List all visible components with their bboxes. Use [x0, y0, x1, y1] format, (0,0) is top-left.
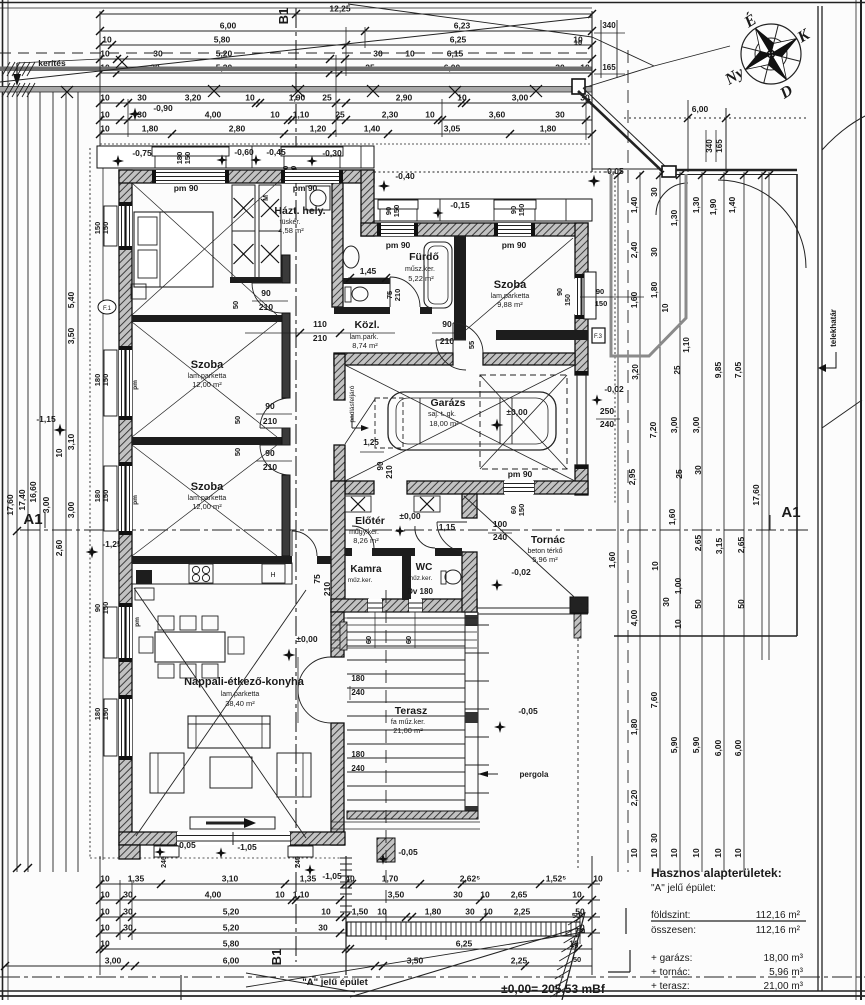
- window left szoba2: [119, 350, 132, 416]
- svg-text:75: 75: [312, 574, 322, 584]
- svg-text:10: 10: [480, 890, 490, 900]
- svg-text:340: 340: [602, 21, 616, 30]
- dim 340/165 left col: [600, 20, 602, 78]
- bathtub: [424, 242, 452, 308]
- svg-text:30: 30: [123, 890, 133, 900]
- svg-text:10: 10: [650, 561, 660, 571]
- svg-text:Szoba: Szoba: [494, 279, 527, 291]
- compass rose: [741, 24, 801, 84]
- svg-text:1,10: 1,10: [293, 890, 310, 900]
- street fence band: [347, 922, 580, 936]
- svg-text:240: 240: [295, 856, 302, 868]
- svg-text:100: 100: [493, 519, 507, 529]
- window topB 1: [381, 223, 414, 236]
- svg-text:12,25: 12,25: [329, 4, 351, 14]
- svg-text:Közl.: Közl.: [354, 319, 379, 331]
- svg-text:55: 55: [467, 341, 476, 349]
- window wc south: [409, 599, 422, 612]
- svg-text:1,45: 1,45: [360, 266, 377, 276]
- bottom stack verticals: [99, 856, 101, 975]
- svg-text:2,62⁵: 2,62⁵: [460, 874, 481, 884]
- svg-text:1,35: 1,35: [128, 874, 145, 884]
- svg-text:30: 30: [318, 923, 328, 933]
- svg-text:+ garázs:: + garázs:: [651, 953, 692, 964]
- svg-text:A1: A1: [23, 511, 42, 528]
- drawing frame top edge: [0, 2, 865, 4]
- svg-text:1,15: 1,15: [439, 522, 456, 532]
- window kamra south: [368, 599, 382, 612]
- svg-text:10: 10: [483, 907, 493, 917]
- svg-text:30: 30: [123, 907, 133, 917]
- svg-text:3,20: 3,20: [631, 364, 640, 380]
- wall kamra-wc divider: [402, 548, 411, 600]
- svg-text:B1: B1: [276, 8, 291, 25]
- eloter cupboard left: [345, 496, 371, 512]
- svg-text:10: 10: [661, 303, 670, 312]
- svg-text:-0,02: -0,02: [604, 384, 624, 394]
- svg-text:10: 10: [100, 124, 110, 134]
- fence diagonal double: [578, 91, 663, 172]
- svg-text:3,10: 3,10: [66, 433, 76, 450]
- wall top-B exterior: [361, 223, 588, 236]
- svg-text:5,80: 5,80: [223, 939, 240, 949]
- levels row left section: [112, 155, 124, 167]
- levels row right section: [378, 180, 390, 192]
- utility band light: [0, 87, 592, 93]
- svg-text:150: 150: [101, 374, 110, 387]
- svg-text:Dv 180: Dv 180: [407, 587, 433, 596]
- svg-text:5,90: 5,90: [691, 736, 701, 753]
- window topA 2: [285, 170, 339, 183]
- svg-text:3,15: 3,15: [714, 537, 724, 554]
- svg-text:3,05: 3,05: [444, 124, 461, 134]
- svg-text:4,00: 4,00: [629, 609, 639, 626]
- terrace door bottom wall: [177, 832, 290, 845]
- street diagonals: [350, 928, 578, 997]
- svg-text:10: 10: [100, 890, 110, 900]
- level -0,05 gate: [588, 175, 601, 188]
- sill band left section: [97, 146, 374, 168]
- svg-text:17,60: 17,60: [5, 494, 15, 516]
- svg-text:2,60: 2,60: [54, 539, 64, 556]
- left comb line 17,60: [16, 92, 18, 872]
- small gate swing arc: [656, 183, 688, 215]
- svg-text:210: 210: [259, 302, 273, 312]
- svg-text:50: 50: [572, 911, 580, 920]
- svg-text:3,10: 3,10: [222, 874, 239, 884]
- svg-text:150: 150: [595, 299, 608, 308]
- svg-text:5,80: 5,80: [214, 35, 231, 45]
- wall right upper: [575, 223, 588, 278]
- svg-text:10: 10: [102, 35, 112, 45]
- svg-text:2,65: 2,65: [511, 890, 528, 900]
- svg-text:90: 90: [261, 288, 271, 298]
- wall bottom exterior: [119, 832, 177, 845]
- svg-text:Terasz: Terasz: [395, 705, 428, 717]
- bottom dim row 1: [100, 883, 600, 885]
- svg-text:6,00: 6,00: [692, 104, 709, 114]
- left comb line 16,60: [39, 92, 41, 872]
- svg-text:8,74 m²: 8,74 m²: [352, 341, 378, 350]
- svg-text:5,20: 5,20: [223, 907, 240, 917]
- window left nappali 2: [119, 699, 132, 756]
- f3 marker: [592, 328, 605, 343]
- svg-text:1,70: 1,70: [382, 874, 399, 884]
- svg-text:150: 150: [517, 204, 526, 217]
- armchair right: [277, 753, 311, 797]
- window right wall: [575, 278, 588, 315]
- svg-text:30: 30: [649, 833, 659, 843]
- svg-text:"A" jelű épület: "A" jelű épület: [302, 977, 368, 988]
- porch south edge: [477, 607, 588, 609]
- svg-text:150: 150: [101, 490, 110, 503]
- svg-text:30: 30: [137, 93, 147, 103]
- svg-text:Előtér: Előtér: [355, 515, 385, 527]
- dim line 3,20 row: [100, 102, 592, 104]
- bottom dim row 3: [100, 916, 600, 918]
- washer hazt: [306, 186, 330, 210]
- f1 marker: [98, 300, 116, 314]
- svg-text:8,26 m²: 8,26 m²: [353, 536, 379, 545]
- svg-text:H: H: [270, 572, 275, 579]
- svg-text:pm: pm: [134, 617, 141, 627]
- wall hazt east: [332, 183, 343, 307]
- svg-text:240: 240: [351, 764, 365, 773]
- svg-text:30: 30: [649, 247, 659, 257]
- fence arrow top left: [16, 63, 18, 80]
- window left nappali 1: [119, 607, 132, 658]
- svg-text:2,25: 2,25: [511, 956, 528, 966]
- wc bath: [345, 287, 351, 302]
- svg-text:F.1: F.1: [103, 306, 112, 312]
- fence diagonal A across top stack: [0, 17, 592, 82]
- svg-text:1,30: 1,30: [691, 196, 701, 213]
- svg-text:6,00: 6,00: [713, 739, 723, 756]
- door garage: [453, 323, 483, 353]
- svg-text:10: 10: [457, 93, 467, 103]
- svg-text:240: 240: [493, 532, 507, 542]
- svg-text:1,25: 1,25: [363, 438, 379, 447]
- svg-text:10: 10: [55, 448, 64, 457]
- level tornac: [491, 579, 503, 591]
- wall bath south: [334, 307, 390, 314]
- diag szoba2: [132, 322, 277, 437]
- svg-text:2,30: 2,30: [382, 110, 399, 120]
- band end hatch: [2, 62, 10, 76]
- terrace left step: [377, 838, 395, 862]
- svg-text:16,60: 16,60: [28, 481, 38, 503]
- svg-text:+ terasz:: + terasz:: [651, 981, 690, 992]
- wall nappali north: [132, 556, 292, 564]
- svg-text:30: 30: [661, 597, 671, 607]
- svg-text:műz.ker.: műz.ker.: [408, 575, 433, 582]
- svg-text:3,00: 3,00: [669, 416, 679, 433]
- svg-text:25: 25: [322, 93, 332, 103]
- svg-text:6,23: 6,23: [454, 21, 471, 31]
- svg-text:műz.ker.: műz.ker.: [348, 577, 373, 584]
- left comb line 5: [65, 92, 67, 872]
- terrace deck boards: [347, 617, 465, 619]
- yard boundary vertical: [796, 174, 798, 636]
- diag nappali X: [134, 588, 306, 838]
- svg-text:1,40: 1,40: [364, 124, 381, 134]
- svg-text:-0,75: -0,75: [132, 148, 152, 158]
- dim line 1,80 row: [100, 133, 592, 135]
- svg-text:10: 10: [673, 619, 683, 629]
- svg-text:210: 210: [263, 462, 277, 472]
- dining table: [155, 632, 225, 662]
- yard well marker: [567, 597, 569, 599]
- svg-text:10: 10: [100, 874, 110, 884]
- street slope hatch: [562, 912, 585, 1000]
- svg-text:-1,05: -1,05: [237, 842, 257, 852]
- axis A1 line: [20, 529, 810, 531]
- dim line 6,00 / 6,23: [100, 30, 592, 32]
- left sill column: [102, 155, 104, 860]
- svg-text:10: 10: [100, 110, 110, 120]
- utility band dark: [0, 67, 592, 72]
- svg-text:A1: A1: [781, 504, 800, 521]
- door kamra: [352, 526, 374, 548]
- level -0,90: [129, 108, 142, 121]
- svg-text:4,00: 4,00: [205, 110, 222, 120]
- svg-text:3,50: 3,50: [388, 890, 405, 900]
- svg-text:1,10: 1,10: [293, 110, 310, 120]
- svg-text:1,90: 1,90: [708, 198, 718, 215]
- porch corner post: [570, 597, 588, 613]
- svg-text:50: 50: [577, 926, 585, 935]
- svg-text:210: 210: [393, 289, 402, 302]
- left comb line 4: [52, 92, 54, 872]
- wardrobe column 1: [232, 185, 255, 231]
- svg-text:2,20: 2,20: [629, 789, 639, 806]
- dim line 5,20 / 6,15: [100, 58, 592, 60]
- svg-text:30: 30: [693, 465, 703, 475]
- svg-text:210: 210: [440, 336, 454, 346]
- bed szoba1: [134, 212, 213, 287]
- svg-text:5,96 m²: 5,96 m²: [532, 555, 558, 564]
- svg-text:-0,05: -0,05: [518, 706, 538, 716]
- level -1,15: [54, 424, 67, 437]
- svg-text:3,00: 3,00: [512, 93, 529, 103]
- top stack verticals: [99, 11, 101, 146]
- basin bath: [343, 246, 359, 268]
- svg-text:-0,90: -0,90: [153, 103, 173, 113]
- svg-text:210: 210: [313, 333, 327, 343]
- svg-text:50: 50: [573, 955, 581, 964]
- dim line 4,00 row: [100, 119, 592, 121]
- tv bench: [190, 817, 275, 829]
- svg-text:pm 90: pm 90: [174, 183, 199, 193]
- wall nappali east: [331, 612, 344, 657]
- svg-text:21,00 m³: 21,00 m³: [764, 981, 804, 992]
- right comb dashed line: [627, 50, 629, 872]
- fence line building to gate: [592, 168, 663, 170]
- svg-text:180: 180: [351, 674, 365, 683]
- wall garage west: [334, 354, 345, 400]
- wall step vertical: [361, 170, 374, 236]
- svg-text:240: 240: [600, 419, 614, 429]
- svg-text:1,52⁵: 1,52⁵: [546, 874, 567, 884]
- gate post: [662, 166, 676, 177]
- svg-text:45: 45: [570, 941, 578, 950]
- left comb line 6: [77, 92, 79, 872]
- drawing frame bottom edge: [0, 990, 865, 992]
- svg-text:fa műz.ker.: fa műz.ker.: [391, 719, 425, 726]
- svg-text:B1: B1: [269, 949, 284, 966]
- window garage south: [504, 481, 534, 494]
- wall bath divider: [343, 278, 390, 284]
- svg-text:10: 10: [100, 923, 110, 933]
- svg-text:10: 10: [321, 907, 331, 917]
- svg-text:1,80: 1,80: [540, 124, 557, 134]
- svg-text:2,25: 2,25: [514, 907, 531, 917]
- svg-text:műsz.ker.: műsz.ker.: [405, 266, 435, 273]
- left window sills: [104, 206, 117, 246]
- svg-text:összesen:: összesen:: [651, 925, 696, 936]
- svg-text:-0,15: -0,15: [450, 200, 470, 210]
- svg-text:9,88 m²: 9,88 m²: [497, 300, 523, 309]
- svg-text:4,58 m²: 4,58 m²: [278, 226, 304, 235]
- svg-text:10: 10: [275, 890, 285, 900]
- terrace bottom band: [347, 811, 478, 819]
- svg-text:beton térkő: beton térkő: [527, 548, 562, 555]
- svg-text:"A" jelű épület:: "A" jelű épület:: [651, 883, 716, 894]
- svg-text:-0,05: -0,05: [176, 840, 196, 850]
- dotted row line: [100, 143, 592, 145]
- svg-text:kerítés: kerítés: [38, 58, 66, 68]
- wall garage-tornac south band: [345, 481, 374, 494]
- terrace top edge: [344, 611, 478, 613]
- svg-text:10: 10: [425, 110, 435, 120]
- wall eloter-kamra west: [331, 481, 345, 612]
- armchair left: [150, 753, 184, 793]
- wall top-A exterior: [119, 170, 374, 183]
- left eave dotted: [89, 148, 91, 858]
- svg-text:-0,30: -0,30: [322, 148, 342, 158]
- svg-text:50: 50: [233, 448, 242, 456]
- svg-text:tüskér.: tüskér.: [280, 219, 301, 226]
- svg-text:földszint:: földszint:: [651, 910, 690, 921]
- margin bracket marks: [625, 908, 627, 934]
- svg-text:10: 10: [572, 890, 582, 900]
- svg-text:-1,15: -1,15: [36, 414, 56, 424]
- x marks band1: [61, 86, 73, 98]
- svg-text:240: 240: [351, 688, 365, 697]
- svg-text:-1,05: -1,05: [322, 871, 342, 881]
- level nappali: [283, 649, 296, 662]
- street dashdot: [0, 976, 865, 978]
- garage door right wall: [576, 375, 578, 465]
- svg-text:10: 10: [593, 874, 603, 884]
- left comb line 17,40: [27, 92, 29, 872]
- svg-text:lam.parketta: lam.parketta: [188, 373, 227, 380]
- svg-text:30: 30: [649, 187, 659, 197]
- svg-text:6,00: 6,00: [733, 739, 743, 756]
- svg-text:210: 210: [322, 582, 332, 596]
- svg-text:1,80: 1,80: [629, 718, 639, 735]
- coffee table: [210, 757, 252, 788]
- svg-text:30: 30: [453, 890, 463, 900]
- bottom dim row 5: [100, 948, 592, 950]
- svg-text:165: 165: [602, 63, 616, 72]
- svg-text:3,00: 3,00: [66, 501, 76, 518]
- svg-text:6,00: 6,00: [220, 21, 237, 31]
- svg-text:9,85: 9,85: [713, 361, 723, 378]
- svg-text:F.3: F.3: [594, 334, 603, 340]
- svg-text:210: 210: [385, 465, 394, 479]
- svg-text:5,20: 5,20: [223, 923, 240, 933]
- svg-text:10: 10: [100, 907, 110, 917]
- svg-text:10: 10: [691, 848, 701, 858]
- svg-text:112,16 m²: 112,16 m²: [756, 925, 801, 936]
- svg-text:10: 10: [100, 939, 110, 949]
- svg-text:saj. t. gk.: saj. t. gk.: [428, 411, 456, 418]
- door szoba4: [436, 340, 466, 370]
- yard boundary horizontal: [614, 635, 797, 637]
- diag szoba3: [132, 445, 277, 556]
- svg-text:7,60: 7,60: [649, 691, 659, 708]
- svg-text:1,40: 1,40: [629, 196, 639, 213]
- svg-text:50: 50: [736, 599, 746, 609]
- svg-text:110: 110: [313, 319, 327, 329]
- car garage: [388, 392, 556, 450]
- svg-text:10: 10: [574, 38, 582, 47]
- svg-text:±0,00: ±0,00: [399, 511, 420, 521]
- svg-text:Szoba: Szoba: [191, 359, 224, 371]
- svg-text:telekhatár: telekhatár: [829, 309, 838, 347]
- svg-text:pm: pm: [132, 495, 139, 505]
- dotted line below porch post: [577, 614, 579, 868]
- parking dashed box: [480, 375, 567, 469]
- steps front of kamra: [331, 624, 477, 626]
- svg-text:Kamra: Kamra: [350, 564, 382, 575]
- svg-text:pm 90: pm 90: [508, 469, 533, 479]
- eave dotted bottom: [90, 857, 348, 859]
- svg-text:180: 180: [351, 750, 365, 759]
- x marks band2: [208, 85, 220, 97]
- svg-text:pm 90: pm 90: [386, 240, 411, 250]
- boundary curve mid right: [822, 400, 862, 428]
- svg-text:150: 150: [101, 222, 110, 235]
- svg-text:90: 90: [376, 461, 385, 470]
- svg-text:25: 25: [335, 110, 345, 120]
- eave dotted right section: [374, 171, 615, 173]
- svg-text:1,50: 1,50: [352, 907, 369, 917]
- fence diagonal B across top stack: [348, 4, 592, 37]
- bottom dim row 4: [100, 932, 600, 934]
- svg-text:10: 10: [270, 110, 280, 120]
- svg-text:pm 90: pm 90: [502, 240, 527, 250]
- svg-text:WC: WC: [416, 562, 433, 573]
- retaining wall bottom: [340, 857, 352, 859]
- dim line 12,25: [100, 13, 592, 15]
- svg-text:30: 30: [555, 110, 565, 120]
- svg-text:lam.park.: lam.park.: [350, 334, 379, 341]
- wall szoba2-szoba3: [132, 437, 290, 445]
- bottom dim row 2: [100, 899, 600, 901]
- levels bottom of plan: [154, 846, 165, 857]
- svg-text:-0,02: -0,02: [511, 567, 531, 577]
- svg-text:30: 30: [465, 907, 475, 917]
- svg-text:Garázs: Garázs: [430, 397, 465, 409]
- svg-text:3,60: 3,60: [489, 110, 506, 120]
- wardrobe column 2: [259, 185, 281, 231]
- svg-text:6,25: 6,25: [450, 35, 467, 45]
- window left szoba1: [119, 206, 132, 246]
- svg-text:lam.parketta: lam.parketta: [491, 293, 530, 300]
- svg-text:Szoba: Szoba: [191, 481, 224, 493]
